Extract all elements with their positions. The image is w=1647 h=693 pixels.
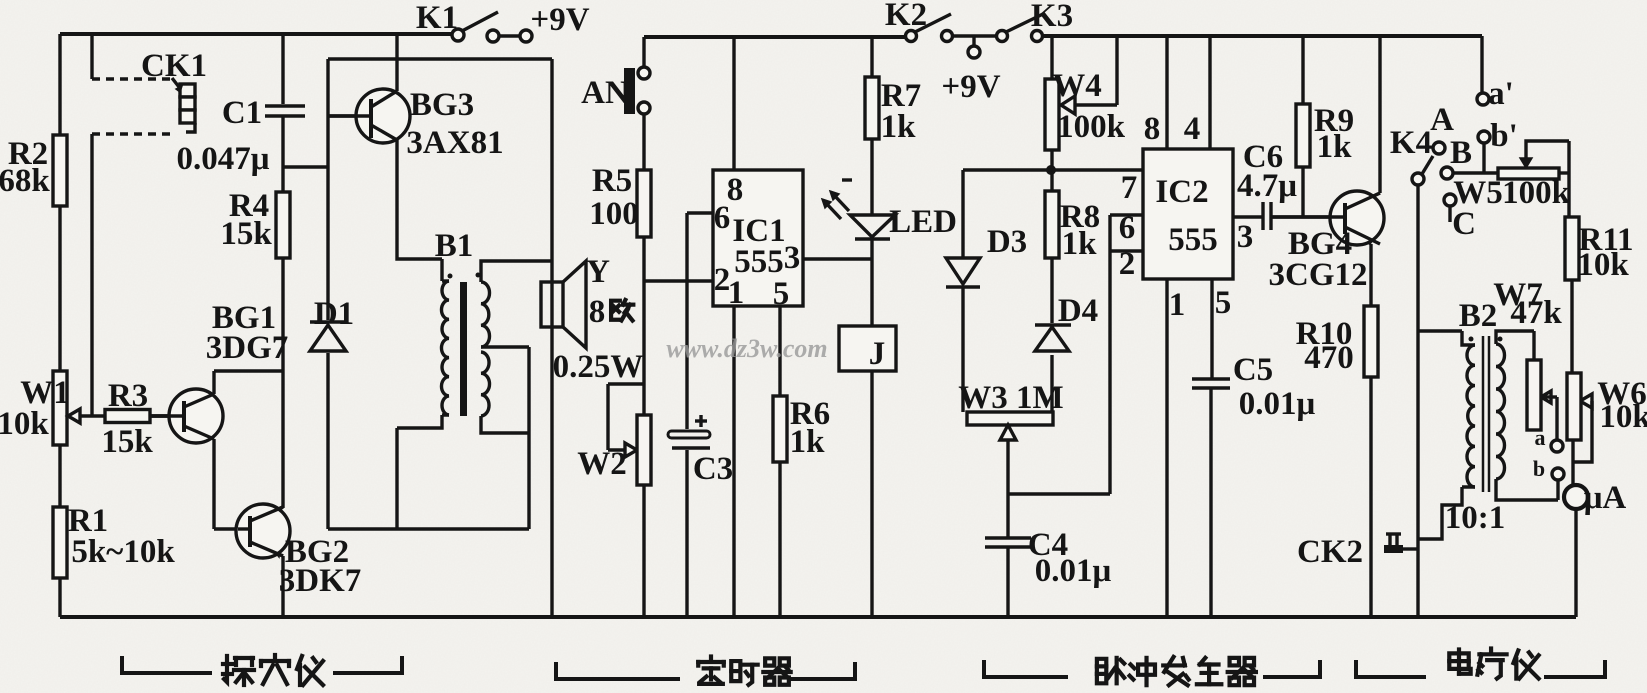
svg-text:+9V: +9V: [941, 69, 1000, 105]
svg-text:D4: D4: [1058, 293, 1098, 329]
svg-text:J: J: [869, 336, 886, 372]
svg-text:CK2: CK2: [1297, 534, 1363, 570]
svg-text:C1: C1: [222, 95, 262, 131]
svg-text:3DK7: 3DK7: [279, 563, 362, 599]
svg-text:C5: C5: [1233, 352, 1273, 388]
svg-text:1: 1: [1169, 287, 1186, 323]
svg-text:www.dz3w.com: www.dz3w.com: [666, 334, 827, 363]
svg-text:6: 6: [714, 200, 731, 236]
svg-text:5: 5: [773, 276, 790, 312]
svg-text:1k: 1k: [1062, 226, 1098, 262]
svg-text:10k: 10k: [0, 406, 49, 442]
svg-text:5: 5: [1215, 285, 1232, 321]
svg-text:K3: K3: [1031, 0, 1073, 34]
svg-text:3AX81: 3AX81: [406, 125, 503, 161]
svg-text:a': a': [1488, 76, 1514, 112]
svg-text:2: 2: [1119, 246, 1136, 282]
svg-text:W2: W2: [577, 446, 627, 482]
svg-text:R5: R5: [592, 163, 632, 199]
svg-text:B: B: [1450, 135, 1472, 171]
svg-text:10:1: 10:1: [1445, 500, 1506, 536]
svg-text:1k: 1k: [790, 424, 826, 460]
svg-text:3DG7: 3DG7: [206, 330, 289, 366]
svg-text:1: 1: [728, 275, 745, 311]
svg-text:B1: B1: [435, 228, 474, 264]
svg-text:C: C: [1452, 206, 1476, 242]
svg-text:15k: 15k: [101, 424, 153, 460]
svg-text:555: 555: [1168, 222, 1218, 258]
svg-text:4: 4: [1184, 111, 1201, 147]
svg-text:5k~10k: 5k~10k: [71, 534, 175, 570]
svg-text:47k: 47k: [1510, 295, 1562, 331]
svg-text:B2: B2: [1459, 298, 1498, 334]
svg-text:15k: 15k: [220, 216, 272, 252]
svg-text:3: 3: [784, 240, 801, 276]
svg-text:b': b': [1490, 118, 1518, 154]
svg-text:BG3: BG3: [410, 87, 474, 123]
svg-text:4.7μ: 4.7μ: [1237, 168, 1297, 204]
svg-text:1k: 1k: [881, 109, 917, 145]
svg-text:0.01μ: 0.01μ: [1035, 553, 1112, 589]
svg-text:W5: W5: [1453, 175, 1503, 211]
svg-text:7: 7: [1121, 170, 1138, 206]
svg-text:D3: D3: [987, 224, 1027, 260]
svg-text:+9V: +9V: [530, 2, 589, 38]
svg-text:K4: K4: [1390, 125, 1432, 161]
svg-text:C3: C3: [693, 451, 733, 487]
svg-text:W3 1M: W3 1M: [958, 380, 1063, 416]
svg-text:8: 8: [589, 294, 606, 330]
svg-text:3CG12: 3CG12: [1269, 257, 1368, 293]
svg-text:470: 470: [1304, 340, 1354, 376]
svg-text:6: 6: [1119, 210, 1136, 246]
svg-text:1k: 1k: [1317, 129, 1353, 165]
svg-text:68k: 68k: [0, 163, 50, 199]
svg-text:10k: 10k: [1577, 247, 1629, 283]
svg-text:8: 8: [1144, 111, 1161, 147]
svg-text:100k: 100k: [1502, 175, 1571, 211]
svg-text:D1: D1: [314, 296, 354, 332]
svg-text:a: a: [1535, 425, 1546, 450]
svg-text:3: 3: [1237, 219, 1254, 255]
svg-text:Y: Y: [586, 254, 610, 290]
svg-text:100: 100: [589, 196, 639, 232]
svg-text:R3: R3: [108, 378, 148, 414]
svg-text:μA: μA: [1584, 480, 1627, 516]
svg-text:K2: K2: [885, 0, 927, 33]
svg-text:b: b: [1533, 456, 1545, 481]
svg-text:A: A: [1430, 102, 1454, 138]
svg-text:CK1: CK1: [141, 48, 207, 84]
svg-text:10k: 10k: [1599, 399, 1647, 435]
svg-text:AN: AN: [581, 75, 629, 111]
svg-text:0.01μ: 0.01μ: [1239, 386, 1316, 422]
svg-text:0.25W: 0.25W: [553, 349, 644, 385]
svg-text:0.047μ: 0.047μ: [177, 141, 270, 177]
svg-text:K1: K1: [416, 0, 458, 36]
svg-text:LED: LED: [889, 204, 957, 240]
svg-text:IC2: IC2: [1155, 174, 1208, 210]
svg-text:W4: W4: [1052, 68, 1102, 104]
svg-text:100k: 100k: [1057, 109, 1126, 145]
